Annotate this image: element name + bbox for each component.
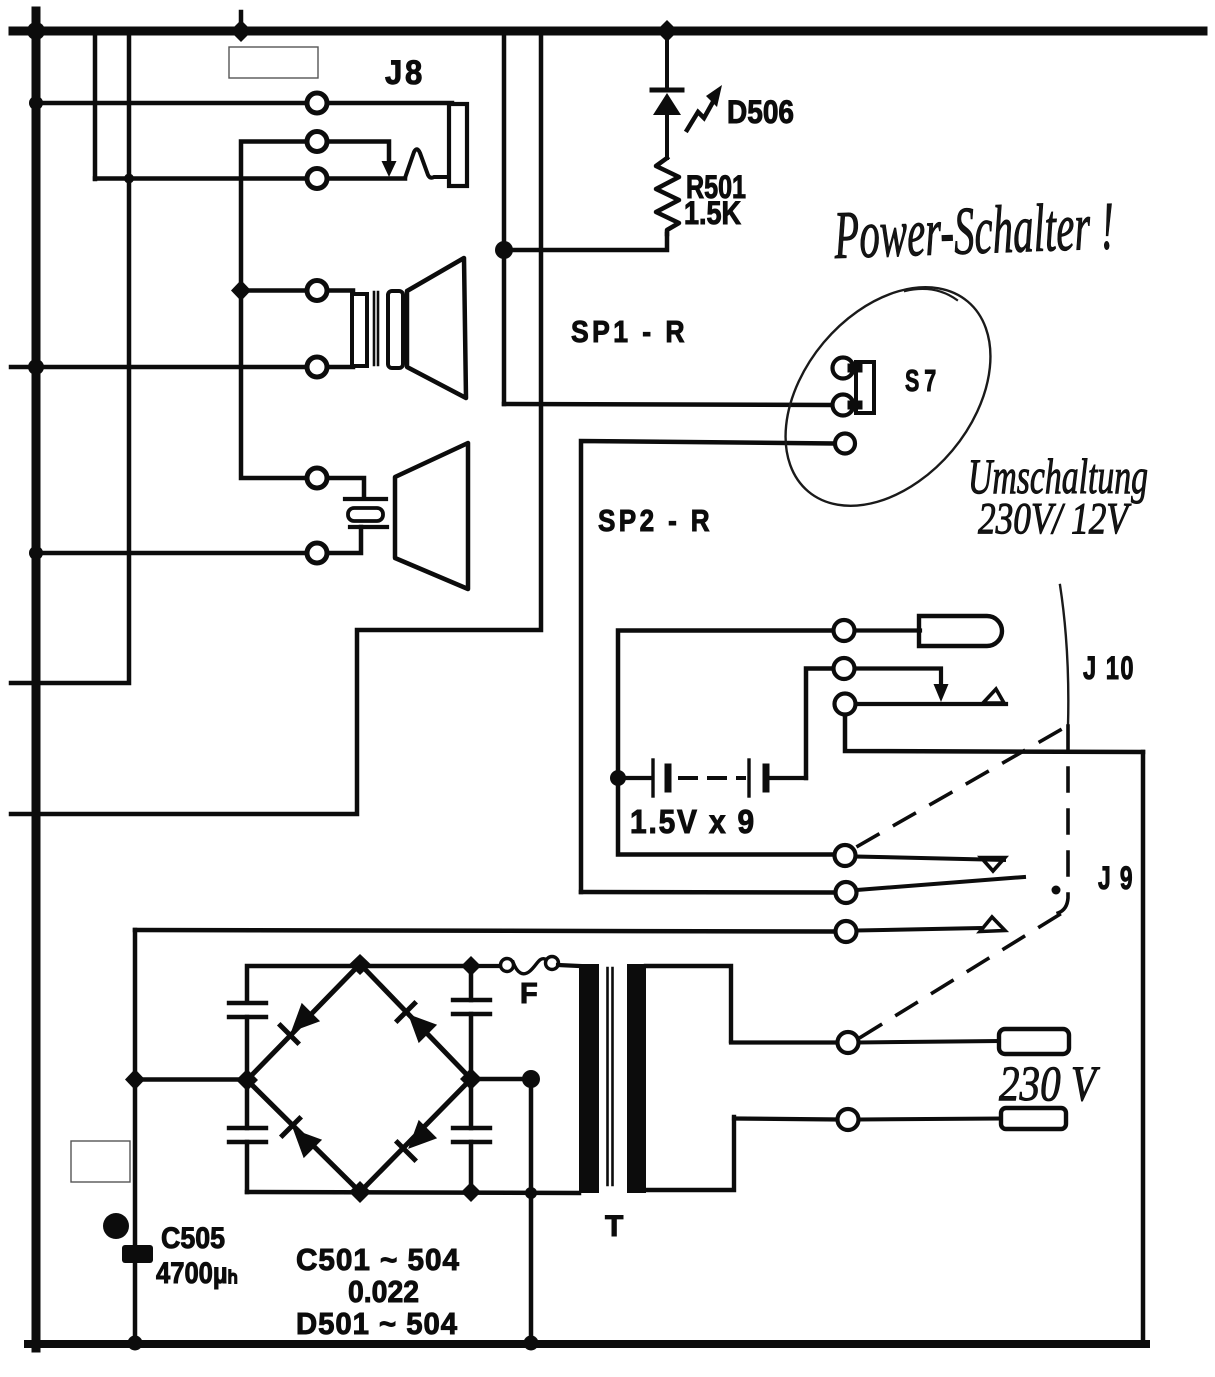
transformer core lines	[606, 968, 609, 1185]
node top bus x241	[230, 20, 252, 42]
connector pin S7-2	[833, 395, 854, 416]
capacitor C501 top-left	[229, 1001, 266, 1005]
connector pin SP2-a	[307, 468, 327, 488]
lamp pill	[919, 616, 1002, 646]
node bridge bottom	[349, 1181, 371, 1203]
speaker SP1 driver box	[388, 291, 403, 368]
marker dot	[103, 1213, 129, 1239]
wire pin to plug top	[859, 1041, 999, 1043]
transformer T primary bar	[579, 964, 599, 1193]
wire to S7 pin2	[504, 404, 831, 405]
transformer T secondary bar	[627, 964, 646, 1193]
wire pin F right	[857, 928, 980, 931]
connector pin J9-F	[836, 921, 857, 942]
node bridge top	[349, 954, 371, 975]
wire pin A to pill	[855, 628, 920, 632]
wire SP1 top	[241, 288, 306, 293]
brace curve J10	[1060, 585, 1068, 726]
connector pin J10-C	[835, 694, 856, 715]
svg-text:230V/ 12V: 230V/ 12V	[978, 494, 1132, 543]
capacitor C502 top-right	[469, 966, 474, 1000]
wire cap to pin	[327, 527, 361, 553]
wire SP1 bottom to coil	[327, 365, 353, 370]
speaker SP1 horn	[407, 258, 466, 398]
node bus top-left	[27, 22, 45, 40]
node x531 y1079	[522, 1070, 540, 1088]
capacitor C505 body	[122, 1245, 153, 1263]
wire to bridge left	[135, 1077, 247, 1082]
contact triangle C	[983, 689, 1004, 703]
bridge edge bottom-left	[247, 1080, 360, 1192]
node x504 y250	[495, 241, 513, 259]
capacitor C503 bottom-left	[245, 1080, 250, 1128]
jack spring contact	[405, 149, 447, 178]
node top rail x471	[461, 956, 481, 976]
wire SP2 bottom left	[36, 551, 306, 556]
dashed diagonal G to J9	[861, 913, 1062, 1037]
wire tap bottom	[734, 1119, 837, 1120]
svg-text:S7: S7	[905, 363, 941, 398]
connector pin S7-3	[835, 434, 855, 454]
battery plate short 1	[665, 767, 672, 789]
svg-text:J 10: J 10	[1083, 650, 1135, 686]
svg-text:1.5K: 1.5K	[684, 195, 741, 231]
wire pin D right	[856, 857, 1004, 861]
svg-text:J8: J8	[385, 54, 425, 92]
node left bus y367	[28, 359, 44, 375]
speaker SP2 horn	[395, 443, 468, 589]
wire from top bus to diode	[665, 31, 669, 90]
diode on top-right edge	[397, 1003, 437, 1043]
capacitor C504 bottom-right	[469, 1079, 474, 1128]
transformer secondary outline bottom	[646, 1117, 734, 1190]
dashed diagonal D to J10	[858, 729, 1062, 846]
node bridge right	[460, 1068, 482, 1090]
plug prong top	[999, 1029, 1069, 1054]
svg-text:J 9: J 9	[1098, 860, 1134, 896]
wire J8 row3 right	[327, 176, 405, 181]
empty label box	[229, 47, 318, 78]
wire tap top	[731, 1040, 837, 1044]
node left bus y553	[29, 546, 43, 560]
wire SP2 top to cap	[327, 478, 364, 497]
wire battery minus to pin D	[618, 778, 834, 855]
svg-text:D501 ~ 504: D501 ~ 504	[296, 1306, 458, 1341]
bottom rail	[247, 1192, 579, 1193]
wire from x241 down to SP2	[241, 291, 306, 479]
wire x531 riser	[529, 1079, 534, 1343]
diode on bottom-right edge	[397, 1120, 437, 1160]
wire SP2R to pin E	[581, 890, 835, 895]
wire bridge right to node	[471, 1077, 531, 1082]
wire pin C down and right	[845, 715, 1143, 752]
svg-text:SP1 - R: SP1 - R	[571, 314, 688, 349]
battery plate short 2	[763, 767, 770, 789]
wire SP1 top to coil	[327, 288, 353, 293]
bridge edge bottom-right	[360, 1079, 471, 1192]
svg-text:4700µₕ: 4700µₕ	[156, 1257, 238, 1290]
wire top bus	[13, 27, 1203, 36]
connector pin S7-1	[833, 358, 854, 379]
wire pin C right	[856, 702, 1006, 706]
wire SP2R riser to S7 pin3	[581, 441, 833, 892]
battery plate long 1	[651, 760, 654, 796]
wire SP1 bottom	[36, 365, 306, 370]
node bridge left	[236, 1069, 258, 1091]
wire pin B arrow	[855, 669, 941, 687]
node left bus y103	[29, 96, 43, 110]
dashed vertical J9/J10	[1054, 726, 1068, 914]
connector pin SP2-b	[307, 543, 327, 563]
piezo element	[348, 508, 383, 521]
node x241 y290	[231, 280, 251, 301]
diode on bottom-left edge	[282, 1118, 322, 1158]
jack tip contact arrow	[382, 161, 397, 177]
wire stub left y367	[11, 365, 36, 370]
wire J8 row1 left	[36, 101, 306, 106]
connector pin J9-E	[836, 882, 857, 903]
top rail	[247, 966, 471, 1001]
connector pin J9-D	[835, 845, 856, 866]
connector pin J10-B	[834, 658, 855, 679]
connector pin SP1-b	[307, 357, 327, 377]
svg-text:0.022: 0.022	[348, 1274, 419, 1309]
svg-text:230 V: 230 V	[999, 1055, 1100, 1111]
fuse F	[471, 964, 499, 968]
contact triangle F	[980, 917, 1005, 932]
wire J8 row3 left	[95, 176, 306, 181]
connector pin J8-3	[307, 169, 327, 189]
node bottom rail x471	[461, 1182, 481, 1202]
wire left riser x135	[133, 930, 138, 1343]
wire J8 row2 right	[327, 142, 389, 164]
wire resistor to node	[504, 234, 667, 250]
switch S7 stub top	[852, 364, 858, 373]
wire J10 rowB	[806, 669, 833, 779]
annotation ellipse	[744, 248, 1032, 546]
wire left bus	[32, 11, 41, 1348]
wire stub left y683	[11, 681, 36, 686]
svg-text:Power-Schalter !: Power-Schalter !	[832, 187, 1115, 273]
switch S7 body	[856, 362, 874, 413]
svg-text:C501 ~ 504: C501 ~ 504	[296, 1242, 460, 1277]
battery wire right	[770, 776, 806, 780]
wire vertical x504	[502, 31, 507, 404]
contact triangle D	[981, 858, 1005, 872]
battery dashed link	[680, 776, 744, 780]
wire pin to plug bottom	[859, 1119, 1001, 1120]
empty box left	[71, 1141, 130, 1182]
LED arrow	[687, 100, 714, 130]
connector pin J8-2	[307, 132, 327, 152]
capacitor plate bottom	[350, 525, 387, 529]
wire J10 rowA	[618, 631, 833, 779]
speaker SP1 coil box	[352, 294, 367, 366]
wire vertical x541 corner to x357 down to y814	[36, 31, 541, 814]
diode on top-left edge	[280, 1003, 320, 1043]
wire J8 row1 right	[327, 101, 452, 106]
wire long to pin F	[135, 930, 835, 932]
node battery junction	[610, 770, 626, 786]
node bottom rail x531	[525, 1187, 537, 1199]
node x531 bottom bus	[524, 1336, 539, 1351]
capacitor plate top	[345, 497, 386, 501]
speaker SP1 gap lines	[373, 292, 376, 365]
svg-text:1.5V x 9: 1.5V x 9	[630, 803, 756, 840]
battery wire left	[618, 776, 651, 780]
switch lever J9	[857, 877, 1024, 890]
wire right riser	[1141, 752, 1146, 1344]
transformer secondary outline top	[646, 966, 731, 1041]
node x129 y178	[124, 174, 134, 184]
connector pin J10-A	[834, 620, 855, 641]
wire vertical x129 to y683	[36, 31, 129, 683]
wire vertical x95	[93, 31, 98, 179]
diode D506 triangle	[653, 93, 681, 115]
connector pin SP1-a	[307, 281, 327, 301]
switch S7 stub bottom	[852, 401, 858, 410]
jack sleeve bar	[449, 104, 467, 186]
diode D506 cathode bar	[652, 88, 682, 93]
plug prong bottom	[1001, 1108, 1066, 1129]
wire diode to resistor	[665, 115, 669, 158]
connector pin 230V-a	[838, 1032, 859, 1053]
bridge edge top-right	[360, 964, 471, 1079]
svg-text:T: T	[605, 1210, 623, 1243]
wire bottom bus	[28, 1340, 1146, 1348]
connector pin J8-1	[307, 93, 327, 113]
battery plate long 2	[747, 760, 750, 796]
node top bus x667	[656, 20, 678, 42]
node x135 bottom bus	[128, 1336, 143, 1351]
svg-text:C505: C505	[161, 1222, 225, 1255]
resistor R501	[656, 158, 679, 234]
svg-text:D506: D506	[727, 94, 794, 130]
wire J8 row2 left	[241, 142, 306, 291]
wire stub above bus x241	[239, 12, 244, 31]
bridge edge top-left	[247, 964, 360, 1080]
pivot dot	[1052, 886, 1061, 895]
wire stub left y814	[11, 812, 36, 817]
svg-text:SP2 - R: SP2 - R	[598, 503, 713, 538]
svg-text:F: F	[520, 978, 538, 1010]
arrow contact J10	[934, 684, 949, 702]
node x135 y1079	[125, 1069, 145, 1090]
connector pin 230V-b	[838, 1109, 859, 1130]
